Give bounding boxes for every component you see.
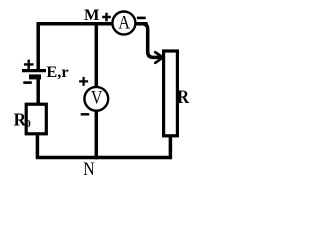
ammeter A circle (112, 12, 135, 35)
svg-text:V: V (91, 88, 103, 109)
svg-text:R: R (177, 88, 189, 108)
rheostat R box (164, 51, 178, 136)
wire R0 to bottom-left corner and bottom wire to right corner (36, 135, 171, 157)
resistor R0 box (26, 104, 46, 134)
svg-text:N: N (83, 159, 95, 180)
svg-text:A: A (118, 13, 130, 34)
battery E,r long positive plate (22, 69, 46, 72)
ammeter plus sign (102, 13, 111, 21)
wire top from left corner to ammeter (37, 22, 148, 26)
wire rheostat to bottom wire (169, 137, 173, 159)
voltmeter V circle (84, 87, 108, 111)
svg-text:E,r: E,r (46, 62, 68, 81)
battery E,r short negative plate (29, 74, 41, 79)
wire left vertical from top corner to battery (36, 22, 40, 71)
ammeter minus sign (137, 17, 146, 20)
arrowhead pointing at rheostat slider (155, 52, 163, 63)
svg-text:M: M (84, 7, 99, 24)
wire battery to R0 (36, 79, 40, 104)
voltmeter plus sign (79, 77, 88, 86)
wire ammeter to arrow, with rounded bends (135, 24, 162, 58)
voltmeter minus sign (81, 113, 90, 115)
battery plus sign (24, 60, 34, 70)
svg-text:0: 0 (25, 118, 31, 130)
battery minus sign (23, 81, 32, 84)
wire middle vertical M to N through voltmeter (95, 22, 99, 159)
